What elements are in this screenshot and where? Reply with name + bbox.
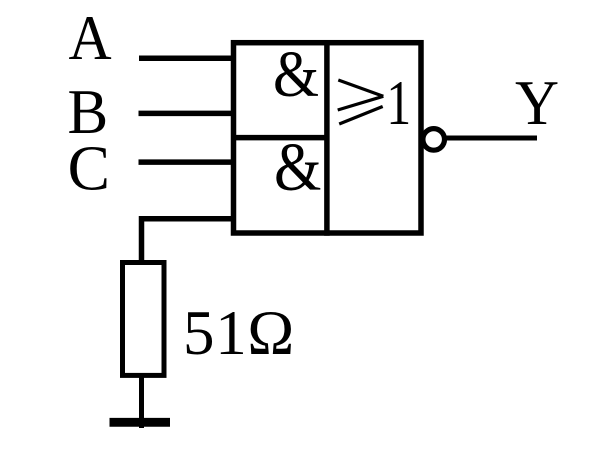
wire output Y	[443, 136, 537, 141]
svg-text:&: &	[274, 130, 321, 206]
gate U1 outline (AND-OR-INVERT block)	[234, 43, 422, 233]
gate U1 internal horizontal divider	[231, 135, 327, 141]
wire input C	[139, 159, 237, 165]
svg-text:51Ω: 51Ω	[183, 298, 295, 368]
ground symbol	[110, 418, 171, 427]
label OR symbol: greater-equal sign (slanted)	[338, 80, 384, 124]
svg-text:Y: Y	[515, 69, 559, 138]
gate U1 internal vertical divider	[324, 40, 330, 236]
resistor R1 body	[123, 263, 165, 376]
svg-text:C: C	[68, 132, 110, 203]
wire input A	[139, 55, 236, 61]
svg-text:&: &	[273, 37, 319, 111]
wire input B	[139, 111, 237, 117]
svg-text:1: 1	[386, 68, 411, 138]
wire fourth input from resistor	[142, 219, 237, 263]
svg-text:A: A	[69, 3, 113, 73]
wire resistor to ground	[139, 375, 144, 428]
inversion bubble at gate output	[423, 129, 445, 151]
